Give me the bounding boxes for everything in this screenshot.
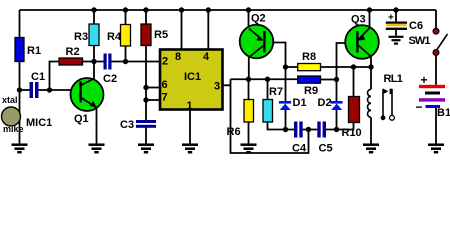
transistor Q2 <box>240 25 274 59</box>
svg-text:−: − <box>416 100 423 114</box>
node rail R3 <box>91 7 96 12</box>
wire R8 right to relay node <box>321 66 372 68</box>
resistor R10 <box>349 97 360 123</box>
wire Q2 collector down <box>248 55 250 79</box>
wire Q1 emitter to ground <box>96 108 98 144</box>
capacitor C6 <box>386 22 407 31</box>
IC1 body <box>160 50 223 110</box>
svg-text:C6: C6 <box>409 20 423 32</box>
capacitor C2 <box>104 54 112 70</box>
svg-text:R2: R2 <box>66 46 80 58</box>
node D1 C4 <box>283 127 288 132</box>
svg-text:IC1: IC1 <box>184 71 201 83</box>
node rail R5 <box>143 7 148 12</box>
svg-text:C5: C5 <box>319 143 333 155</box>
node pin7 <box>143 97 148 102</box>
wire Q1 collector <box>93 62 95 81</box>
svg-text:C3: C3 <box>120 119 134 131</box>
wire switch to battery <box>435 55 437 84</box>
resistor R6 <box>244 100 254 123</box>
wire C1 to node B <box>39 89 50 91</box>
wire C6 top lead <box>395 10 397 22</box>
wire R6 top lead <box>248 79 250 99</box>
node Q3c relay <box>368 64 373 69</box>
capacitor C3 <box>136 120 156 128</box>
microphone MIC1 body <box>2 107 21 126</box>
resistor R9 <box>298 76 321 83</box>
wire signal row y79 <box>231 78 298 80</box>
svg-text:1: 1 <box>187 100 193 112</box>
svg-text:mike: mike <box>3 124 24 134</box>
node C4 C5 pin3 <box>306 127 311 132</box>
wire R1 bottom to mic <box>19 62 21 144</box>
svg-text:RL1: RL1 <box>384 73 403 85</box>
node R7 <box>265 77 270 82</box>
svg-text:B1: B1 <box>437 107 450 119</box>
wire node B up to R2 <box>50 62 60 91</box>
svg-text:SW1: SW1 <box>409 35 431 47</box>
ground C6 <box>389 37 404 44</box>
svg-text:D1: D1 <box>293 97 307 109</box>
ground R6 <box>241 145 257 153</box>
node R8 R10 <box>351 64 356 69</box>
svg-text:C4: C4 <box>292 143 307 155</box>
wire C4 to C5 <box>303 129 318 131</box>
ground relay <box>363 145 379 153</box>
node R3 C2 Q1c <box>91 59 96 64</box>
wire left drop to R1 <box>19 10 21 38</box>
svg-text:R6: R6 <box>227 126 241 138</box>
resistor R2 <box>59 58 83 65</box>
node rail Q3 <box>367 7 372 12</box>
node rail R4 <box>123 7 128 12</box>
node Q2c R6 <box>246 77 251 82</box>
svg-text:+: + <box>388 13 394 24</box>
wire relay coil bottom <box>370 117 372 143</box>
wire R8 left lead <box>286 66 298 68</box>
wire stub IC pin 6 <box>146 87 161 89</box>
transistor Q3 <box>345 25 379 59</box>
switch SW1 <box>433 28 447 55</box>
ground Q1 <box>89 145 105 153</box>
svg-text:8: 8 <box>175 51 181 63</box>
node R4 C2 <box>123 59 128 64</box>
node mic <box>17 87 22 92</box>
wire D1 bottom <box>285 110 287 130</box>
svg-text:3: 3 <box>214 81 220 93</box>
svg-text:R1: R1 <box>27 45 41 57</box>
wire IC pin 1 to ground <box>189 110 191 144</box>
svg-text:Q2: Q2 <box>251 13 266 25</box>
wire C6 bottom lead <box>395 30 397 36</box>
svg-text:R7: R7 <box>269 86 283 98</box>
wire R2 right to C2 <box>83 61 104 63</box>
wire C3 to ground <box>145 128 147 144</box>
ground IC pin 1 <box>182 145 198 153</box>
wire rail right corner to switch <box>435 10 437 28</box>
wire stub IC pin 7 <box>146 99 161 101</box>
wire R3 bottom to node C <box>93 46 95 62</box>
wire D2 top <box>336 80 338 102</box>
wire R10 top lead <box>353 67 355 97</box>
svg-text:+: + <box>421 73 428 87</box>
relay coil bumps <box>368 89 371 117</box>
capacitor C4 <box>294 122 303 138</box>
wire relay coil top <box>370 67 372 89</box>
resistor R1 <box>15 38 24 62</box>
wire D1 vertical <box>285 67 287 101</box>
ground C3 <box>138 145 154 153</box>
wire R5 top lead <box>145 10 147 24</box>
wire node D2 up to Q3 base <box>337 43 357 80</box>
capacitor C1 <box>30 82 39 98</box>
svg-text:Q1: Q1 <box>74 113 89 125</box>
svg-text:MIC1: MIC1 <box>26 117 52 129</box>
resistor R5 <box>141 24 151 46</box>
svg-text:R4: R4 <box>107 31 122 43</box>
wire C2 to IC pin 2 <box>112 61 161 63</box>
battery B1 <box>419 85 445 108</box>
wire R4 bottom lead <box>125 46 127 62</box>
diode D2 <box>330 101 342 110</box>
wire R5 bottom through pins 6,7 to C3 <box>145 46 147 121</box>
node rail pin4 <box>206 7 211 12</box>
wire D2 bottom <box>336 110 338 130</box>
svg-text:D2: D2 <box>318 97 332 109</box>
wire IC pin 4 <box>207 10 209 50</box>
svg-text:C2: C2 <box>103 73 117 85</box>
node D2 C5 <box>334 127 339 132</box>
wire top rail <box>20 9 437 11</box>
node rail C6 <box>393 7 398 12</box>
wire Q3 emitter top lead <box>369 10 371 28</box>
capacitor C5 <box>317 122 326 138</box>
svg-text:C1: C1 <box>31 71 45 83</box>
wire IC pin 3 stub <box>223 84 231 86</box>
wire R4 top lead <box>125 10 127 25</box>
svg-text:R10: R10 <box>342 127 362 139</box>
wire R7 bottom to C4 <box>268 122 295 130</box>
wire R3 top lead <box>93 10 95 24</box>
svg-text:xtal: xtal <box>2 95 18 105</box>
node R9 D2 <box>334 77 339 82</box>
wire Q2 base corner <box>266 43 286 68</box>
resistor R4 <box>121 25 131 47</box>
relay RL1 contacts <box>381 89 395 121</box>
wire R7 top lead <box>267 79 269 99</box>
svg-text:R5: R5 <box>154 29 168 41</box>
node rail pin8 <box>179 7 184 12</box>
svg-text:2: 2 <box>162 56 168 68</box>
node rail Q2 <box>246 7 251 12</box>
diode D1 <box>279 101 291 110</box>
wire node B to Q1 base <box>50 89 80 91</box>
ground mic <box>12 145 28 153</box>
wire R9 right lead <box>321 79 337 81</box>
wire Q2 emitter top lead <box>248 10 250 28</box>
wire C5 to R10 <box>326 123 354 130</box>
node Q2b R8 D1 <box>283 64 288 69</box>
node pin6 <box>143 85 148 90</box>
wire IC pin 8 <box>181 10 183 50</box>
svg-text:R8: R8 <box>302 51 316 63</box>
ground battery <box>428 145 444 153</box>
wire R6 bottom lead <box>248 122 250 144</box>
resistor R3 <box>89 24 99 46</box>
resistor R8 <box>298 64 321 71</box>
wire Q3 collector down <box>370 57 372 68</box>
svg-text:4: 4 <box>203 51 210 63</box>
svg-text:6: 6 <box>162 79 168 91</box>
svg-text:R9: R9 <box>304 85 318 97</box>
svg-text:R3: R3 <box>74 31 88 43</box>
resistor R7 <box>263 100 273 123</box>
wire mic node to C1 <box>20 89 30 91</box>
node C1 R2 Q1 <box>47 87 52 92</box>
transistor Q1 <box>71 78 104 111</box>
wire pin3 route down right up <box>231 79 309 153</box>
svg-text:7: 7 <box>162 92 168 104</box>
wire battery to ground <box>435 108 437 144</box>
svg-text:Q3: Q3 <box>351 14 366 26</box>
